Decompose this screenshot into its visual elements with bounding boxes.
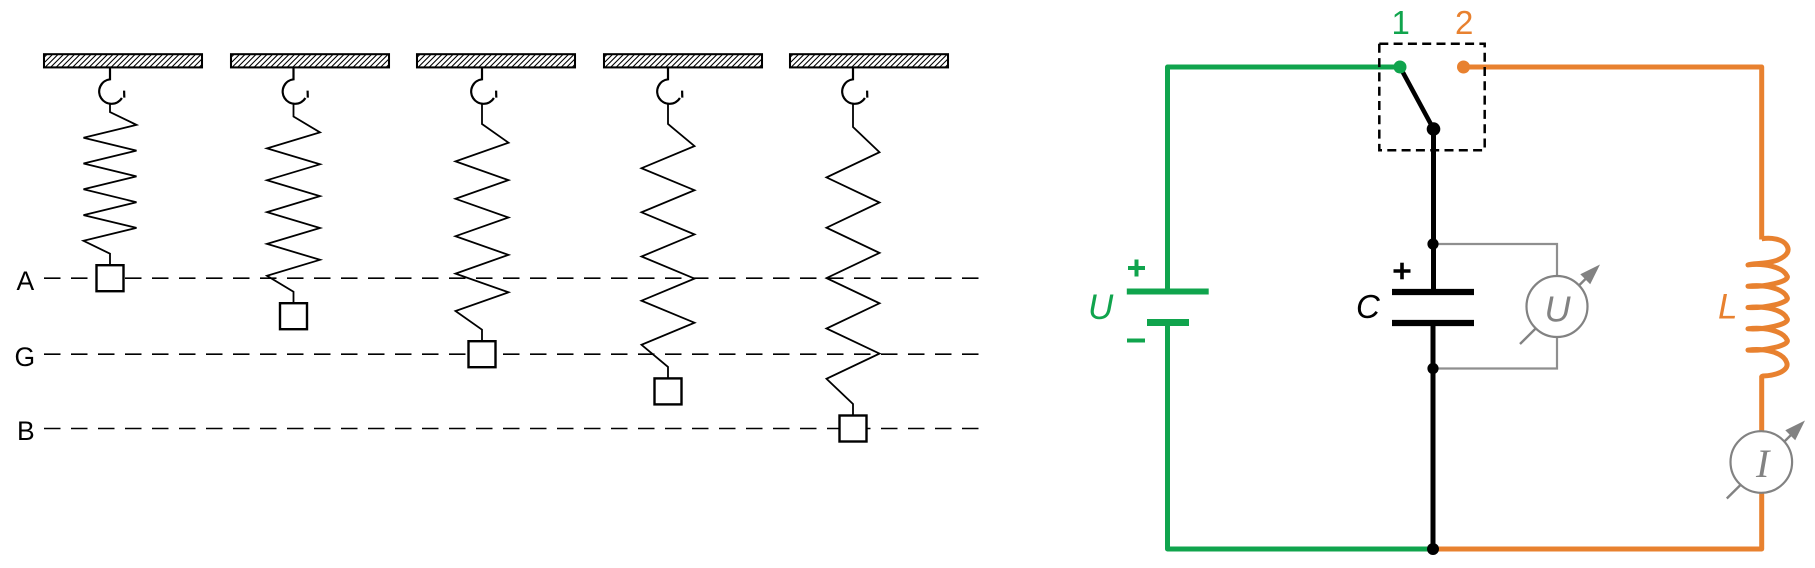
voltmeter needle (1520, 265, 1600, 345)
ammeter I body (1731, 431, 1793, 493)
wire: green battery loop (left branch) (1168, 67, 1434, 549)
svg-text:I: I (1755, 441, 1771, 486)
spring 1 (84, 104, 137, 265)
switch contact 2 node (orange) (1457, 61, 1470, 74)
capacitor C: top plate (1392, 289, 1474, 295)
switch contact 1 node (green) (1394, 61, 1407, 74)
ceiling support 4 (hatched bar) (593, 54, 778, 68)
ceiling support 3 (hatched bar) (406, 54, 591, 68)
node: bottom junction (1427, 543, 1439, 555)
battery minus sign (1127, 339, 1145, 343)
hook 5 (842, 67, 867, 104)
svg-text:L: L (1718, 288, 1737, 327)
svg-text:U: U (1545, 288, 1572, 329)
mass block 2 (280, 303, 307, 329)
svg-text:1: 1 (1392, 4, 1410, 41)
switch dashed enclosure (1379, 44, 1484, 151)
ammeter needle (1727, 421, 1805, 499)
wire: black center branch (1431, 129, 1437, 549)
voltmeter U body (1527, 276, 1588, 337)
node: capacitor bottom junction (1427, 363, 1438, 374)
reference line B (dashed) (44, 428, 989, 430)
svg-text:G: G (15, 342, 36, 372)
svg-text:2: 2 (1455, 4, 1473, 41)
mass block 3 (469, 341, 496, 367)
spring 4 (642, 104, 695, 378)
mass block 4 (655, 378, 682, 404)
reference line A (dashed) (44, 277, 989, 279)
wire: voltmeter branch (gray) (1433, 244, 1557, 369)
spring 2 (267, 104, 320, 303)
battery U: long positive plate (1127, 289, 1209, 295)
reference line G (dashed) (44, 353, 989, 355)
hook 2 (283, 67, 308, 104)
ceiling support 2 (hatched bar) (220, 54, 405, 68)
switch lever (1400, 67, 1434, 129)
battery U: short negative plate (1147, 319, 1189, 326)
mass block 5 (840, 416, 867, 442)
hook 4 (657, 67, 682, 104)
node: capacitor top junction (1427, 238, 1438, 249)
svg-text:C: C (1356, 288, 1381, 325)
capacitor plus sign (1394, 263, 1411, 280)
spring 5 (827, 104, 880, 415)
svg-text:U: U (1088, 288, 1114, 327)
hook 3 (471, 67, 496, 104)
ceiling support 5 (hatched bar) (779, 54, 964, 68)
svg-text:B: B (17, 416, 35, 446)
mass block 1 (97, 265, 124, 291)
capacitor C: bottom plate (1392, 320, 1474, 326)
inductor L coil (1748, 238, 1788, 377)
wire: orange inductor loop (right branch) (1433, 67, 1762, 549)
hook 1 (99, 67, 124, 104)
switch pivot node (1427, 122, 1441, 136)
ceiling support 1 (hatched bar) (33, 54, 218, 68)
spring 3 (456, 104, 509, 341)
battery plus sign (1128, 260, 1145, 277)
svg-text:A: A (17, 266, 35, 296)
